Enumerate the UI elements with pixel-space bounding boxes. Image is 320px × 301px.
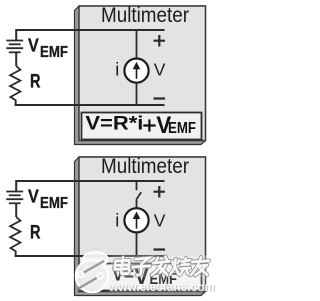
- switch S1 open blade: [136, 192, 141, 199]
- char 子: [132, 258, 151, 275]
- wire: battery top to multimeter top terminal (bottom): [16, 181, 164, 192]
- char 发: [152, 257, 170, 275]
- plus terminal sign (top box): [154, 35, 166, 47]
- svg-text:EMF: EMF: [168, 120, 196, 137]
- svg-text:EMF: EMF: [40, 195, 68, 212]
- svg-text:EMF: EMF: [40, 44, 68, 61]
- svg-text:i: i: [115, 60, 119, 80]
- svg-text:R: R: [30, 222, 41, 243]
- watermark chinese text halo: [106, 255, 216, 292]
- current source U1a circle: [124, 59, 148, 83]
- watermark logo node circle right: [97, 273, 103, 279]
- svg-text:i: i: [115, 210, 119, 230]
- multimeter box U2 face: [79, 157, 206, 292]
- char 电: [114, 257, 132, 273]
- wire: resistor bottom to multimeter bottom terminal (bottom): [16, 255, 165, 257]
- switch S1 lower stub to current source: [136, 199, 138, 210]
- svg-text:Multimeter: Multimeter: [101, 4, 189, 27]
- multimeter box U2 (3D slab back bevel): [75, 157, 206, 296]
- watermark logo leaf: [83, 252, 108, 266]
- resistor R1 zigzag: [10, 66, 20, 104]
- wire: current source to bottom terminal (bottom box): [136, 233, 138, 256]
- resistor R2 zigzag: [10, 217, 20, 255]
- wire: battery top to multimeter top terminal: [16, 30, 164, 41]
- switch S1 fixed stub: [136, 181, 138, 190]
- wire: battery to resistor (bottom): [15, 203, 17, 217]
- svg-text:www.elecfans.com: www.elecfans.com: [108, 280, 215, 294]
- watermark logo diagonal bar lower: [79, 277, 100, 289]
- char 友: [191, 257, 210, 275]
- formula box (top): V=R*i+VEMF: [82, 113, 202, 140]
- wire: resistor bottom to multimeter bottom terminal: [16, 104, 165, 106]
- minus terminal sign (bottom box): [154, 248, 166, 250]
- svg-text:Multimeter: Multimeter: [101, 155, 189, 178]
- char 烧: [170, 258, 191, 275]
- multimeter box U1 face: [79, 6, 206, 141]
- svg-text:V: V: [28, 186, 39, 207]
- wire: top terminal down to current source: [136, 30, 138, 59]
- svg-text:R: R: [30, 71, 41, 92]
- multimeter box U1 (3D slab back bevel): [75, 6, 206, 145]
- watermark chinese text 电子发烧友 (approximated strokes): [114, 257, 210, 275]
- watermark logo diagonal bar upper: [82, 261, 104, 274]
- battery B2 (VEMF) plates: [6, 191, 23, 193]
- svg-text:V: V: [154, 210, 166, 230]
- current source U2a circle: [124, 208, 148, 232]
- plus terminal sign (bottom box): [154, 186, 166, 198]
- battery B1 (VEMF) plates: [6, 40, 23, 42]
- watermark logo node circle left: [78, 272, 84, 278]
- watermark logo circle: [76, 260, 108, 292]
- minus terminal sign (top box): [154, 97, 166, 99]
- svg-text:V=R*i: V=R*i: [85, 113, 143, 135]
- svg-text:V: V: [28, 35, 39, 56]
- wire: battery to resistor: [15, 52, 17, 66]
- arrow inside current source (up, bottom box): [136, 216, 138, 229]
- svg-text:V: V: [154, 60, 166, 80]
- wire: current source to bottom terminal: [136, 83, 138, 105]
- formula box (bottom): V=VEMF: [82, 264, 202, 291]
- arrow inside current source (up): [136, 66, 138, 79]
